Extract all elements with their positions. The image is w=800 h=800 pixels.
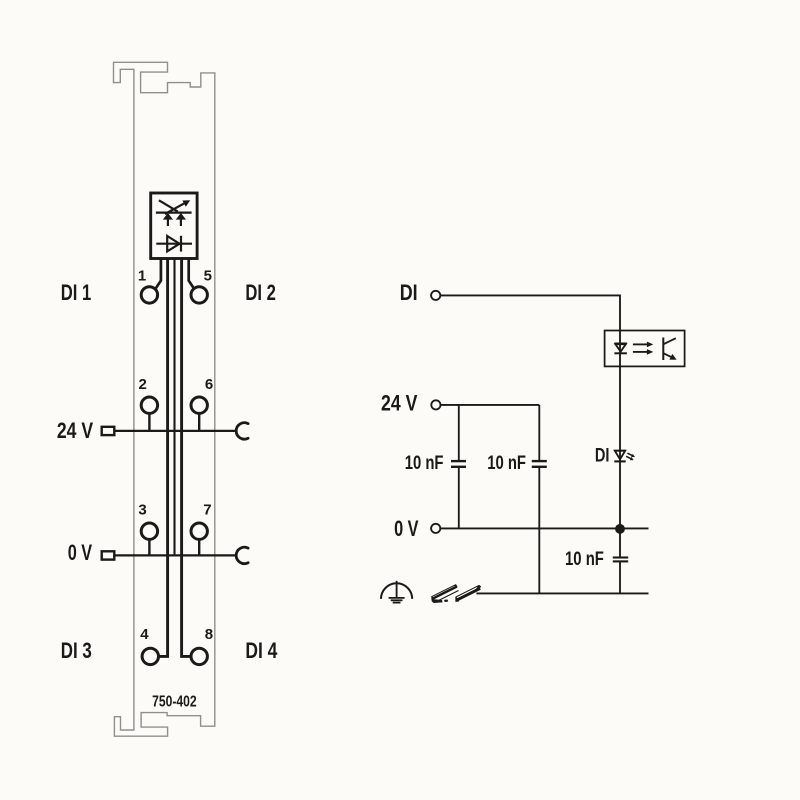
svg-text:8: 8: [205, 626, 213, 643]
svg-text:DI: DI: [595, 444, 610, 466]
svg-text:DI: DI: [400, 280, 418, 305]
capacitor C2 plates: [532, 460, 547, 462]
suppressor diagonal: [159, 200, 178, 211]
earth bonding wire: [476, 592, 648, 594]
wire 24V to C2: [441, 404, 540, 406]
svg-text:DI 3: DI 3: [61, 638, 92, 663]
pin 2 stem: [148, 414, 150, 431]
module body outline 750-402: [114, 62, 215, 736]
pin 5 contact: [191, 287, 207, 303]
status LED anode line: [614, 450, 625, 452]
diode D1 cathode bar: [180, 236, 182, 252]
pin 2 contact: [141, 397, 157, 413]
main vertical wire lower: [619, 561, 621, 593]
svg-text:4: 4: [140, 626, 149, 643]
light arrow lower: [633, 351, 648, 353]
left flange side face: [433, 586, 457, 599]
svg-text:0 V: 0 V: [68, 540, 93, 565]
svg-text:24 V: 24 V: [57, 418, 93, 443]
capacitor C3 plates: [613, 556, 628, 558]
0V wire right: [440, 527, 648, 529]
right flange front foot: [456, 597, 459, 601]
DIN rail symbol: [432, 584, 481, 602]
LED emission arrow 2: [626, 456, 632, 459]
optocoupler LED triangle: [615, 344, 625, 351]
svg-text:0 V: 0 V: [394, 516, 419, 541]
optocoupler LED cathode bar: [614, 352, 627, 354]
channel floor edge: [438, 591, 459, 601]
wire lead to pin 1: [156, 259, 161, 288]
electronics box U1: [151, 193, 197, 259]
right flange end cap: [476, 585, 481, 590]
left flange top face: [432, 585, 456, 598]
24V jumper contact arc: [236, 423, 248, 439]
pin 3 contact: [141, 523, 157, 539]
left flange front cap: [432, 596, 434, 599]
capacitor C1 plates: [451, 460, 466, 462]
0V terminal tag: [102, 551, 115, 559]
svg-text:DI 1: DI 1: [61, 280, 92, 305]
svg-text:DI 2: DI 2: [245, 280, 276, 305]
svg-text:24 V: 24 V: [381, 391, 418, 416]
pin 4 contact: [142, 648, 158, 664]
pin 1 contact: [141, 287, 157, 303]
DI input terminal: [431, 291, 440, 300]
diode D1 triangle: [167, 236, 179, 251]
24V terminal tag: [102, 427, 115, 435]
capacitor C2 top lead: [538, 405, 540, 460]
capacitor C1 bottom lead: [458, 468, 460, 529]
0V jumper contact arc: [236, 547, 248, 563]
LED emission arrow 1: [627, 453, 633, 456]
pin 6 contact: [191, 397, 207, 413]
svg-text:DI 4: DI 4: [245, 638, 278, 663]
up arrow right: [176, 213, 186, 220]
svg-text:3: 3: [138, 501, 146, 518]
0V rail wire: [115, 554, 237, 556]
wire lead to pin 8: [182, 259, 190, 656]
left flange end cap: [455, 584, 458, 588]
diode D1 baseline: [156, 243, 192, 245]
right flange side face: [457, 588, 480, 601]
phototransistor collector: [663, 338, 676, 344]
capacitor C2 bottom lead: [538, 468, 540, 594]
wire lead to pin 5: [189, 259, 194, 288]
bottom web front band: [432, 599, 442, 603]
phototransistor emitter: [663, 353, 671, 357]
status LED cathode bar: [614, 460, 625, 462]
svg-text:6: 6: [205, 376, 213, 393]
light arrow upper: [633, 343, 648, 345]
suppressor arrow: [165, 203, 185, 214]
wire DI to optocoupler: [440, 295, 620, 330]
svg-text:2: 2: [139, 376, 147, 393]
wire lead to 0V rail: [173, 259, 175, 555]
optocoupler U2 box: [605, 331, 685, 367]
junction node: [615, 524, 625, 534]
phototransistor bar: [662, 338, 664, 361]
svg-text:7: 7: [203, 501, 211, 518]
svg-text:5: 5: [204, 267, 212, 284]
up arrow left: [163, 213, 173, 220]
0V terminal right: [431, 524, 440, 533]
svg-text:10 nF: 10 nF: [565, 548, 604, 570]
svg-text:10 nF: 10 nF: [405, 452, 444, 474]
capacitor C1 top lead: [458, 405, 460, 460]
optocoupler LED anode line: [614, 342, 627, 344]
svg-text:10 nF: 10 nF: [487, 452, 526, 474]
24V terminal right: [431, 400, 440, 409]
pin 6 stem: [198, 414, 200, 431]
status LED triangle: [615, 451, 625, 460]
pin 3 stem: [148, 540, 150, 556]
pin 7 contact: [191, 523, 207, 539]
svg-text:1: 1: [138, 267, 146, 284]
svg-text:750-402: 750-402: [152, 693, 197, 710]
24V rail wire: [115, 430, 237, 432]
main vertical wire upper: [619, 330, 621, 557]
right flange top face: [456, 586, 480, 599]
earth ground symbol: [381, 583, 412, 599]
pin 8 contact: [191, 648, 207, 664]
bottom web notch bit: [444, 600, 448, 602]
wire lead to pin 4: [159, 259, 167, 656]
pin 7 stem: [198, 540, 200, 556]
suppressor symbol baseline: [156, 212, 192, 214]
